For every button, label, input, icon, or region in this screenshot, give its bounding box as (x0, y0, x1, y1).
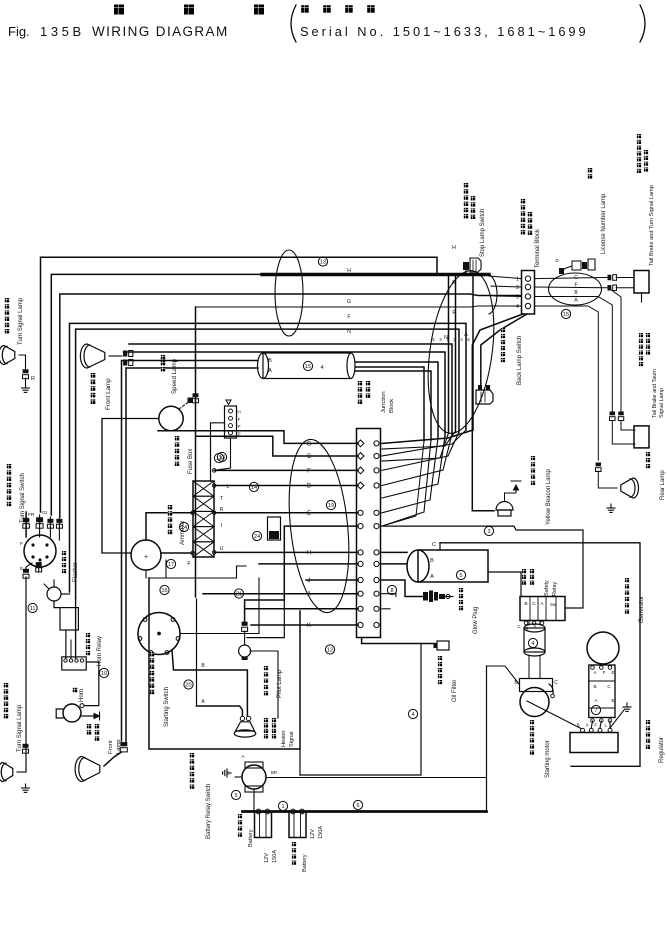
svg-text:Horn: Horn (79, 689, 85, 702)
svg-text:2: 2 (516, 285, 519, 291)
svg-text:Signal: Signal (289, 731, 295, 747)
svg-text:Sw: Sw (550, 602, 557, 607)
svg-text:A: A (268, 368, 272, 374)
svg-text:10: 10 (101, 671, 107, 677)
svg-text:C: C (307, 454, 312, 460)
svg-text:1: 1 (516, 277, 519, 283)
svg-text:150A: 150A (318, 826, 324, 839)
svg-text:N: N (347, 329, 351, 335)
svg-text:H: H (307, 550, 311, 556)
svg-text:15: 15 (563, 312, 569, 318)
svg-text:Front: Front (108, 740, 114, 754)
svg-text:C: C (554, 680, 558, 686)
svg-text:K: K (307, 623, 311, 629)
svg-text:L: L (605, 723, 608, 728)
svg-text:Flasher: Flasher (73, 562, 79, 582)
svg-text:Stop Lamp Switch: Stop Lamp Switch (480, 209, 486, 257)
svg-text:Back Lamp Switch: Back Lamp Switch (517, 336, 523, 385)
svg-text:G: G (452, 280, 456, 286)
svg-text:F: F (594, 723, 597, 728)
svg-text:Rear Lamp: Rear Lamp (660, 470, 666, 500)
svg-text:Front Lamp: Front Lamp (105, 378, 112, 410)
svg-text:8: 8 (390, 588, 393, 594)
svg-text:Gt: Gt (42, 510, 48, 516)
svg-text:G: G (307, 441, 312, 447)
svg-text:5: 5 (459, 573, 462, 579)
svg-text:13: 13 (320, 260, 326, 266)
svg-text:H: H (452, 245, 456, 251)
svg-text:B: B (268, 358, 272, 364)
svg-text:D: D (307, 484, 312, 490)
svg-text:Regulator: Regulator (659, 737, 665, 763)
svg-text:Oil Filter: Oil Filter (452, 680, 458, 702)
svg-text:4: 4 (531, 641, 534, 647)
svg-text:17: 17 (168, 562, 174, 568)
svg-text:C: C (517, 624, 520, 629)
svg-text:150A: 150A (272, 850, 278, 863)
svg-text:24: 24 (254, 534, 260, 540)
svg-text:Relay: Relay (552, 581, 558, 596)
svg-text:Junction: Junction (381, 391, 387, 413)
svg-text:20: 20 (185, 683, 191, 689)
svg-text:7: 7 (594, 708, 597, 714)
svg-text:21: 21 (236, 592, 242, 598)
svg-text:C: C (432, 542, 436, 548)
svg-text:3: 3 (516, 295, 519, 301)
svg-text:4: 4 (516, 304, 519, 310)
svg-text:Tail Brake and Turn Signal Lam: Tail Brake and Turn Signal Lamp (649, 185, 655, 266)
svg-text:6: 6 (356, 803, 359, 809)
svg-text:Turn Signal Switch: Turn Signal Switch (20, 473, 26, 523)
svg-text:I: I (221, 523, 222, 529)
svg-text:12V: 12V (310, 829, 316, 839)
svg-text:E: E (307, 511, 311, 517)
svg-text:Terminal Block: Terminal Block (535, 228, 541, 268)
svg-text:F: F (603, 670, 606, 675)
svg-text:B: B (593, 684, 596, 689)
svg-text:Heater: Heater (281, 730, 287, 747)
svg-text:3: 3 (487, 529, 490, 535)
svg-text:Turn Signal Lamp: Turn Signal Lamp (18, 297, 24, 345)
svg-text:U: U (220, 546, 224, 552)
svg-text:FR: FR (28, 512, 35, 518)
svg-text:Signal Lamp: Signal Lamp (659, 388, 665, 418)
svg-text:5: 5 (234, 793, 237, 799)
svg-text:Block: Block (389, 399, 395, 413)
svg-text:Battery: Battery (302, 854, 308, 872)
svg-text:F: F (20, 541, 23, 547)
svg-text:B: B (430, 558, 434, 564)
svg-text:4: 4 (320, 365, 323, 371)
svg-text:Battery: Battery (248, 829, 254, 847)
svg-text:H: H (237, 410, 240, 415)
svg-text:Tail Brake and Taurn: Tail Brake and Taurn (652, 369, 658, 418)
svg-text:A: A (430, 574, 434, 580)
svg-text:Glow Plug: Glow Plug (473, 607, 479, 634)
svg-text:F: F (238, 417, 241, 422)
svg-text:A: A (307, 592, 311, 598)
svg-text:P: P (237, 424, 240, 429)
svg-text:Fuse Box: Fuse Box (188, 449, 194, 474)
svg-text:E: E (611, 670, 614, 675)
svg-text:12: 12 (327, 648, 333, 654)
svg-text:BR: BR (271, 770, 277, 775)
svg-text:4: 4 (411, 712, 414, 718)
svg-text:Speed Lamp: Speed Lamp (171, 358, 178, 394)
svg-text:License Number Lamp: License Number Lamp (601, 193, 607, 254)
svg-text:B: B (524, 601, 527, 606)
svg-text:F: F (307, 468, 311, 474)
svg-text:H: H (347, 268, 351, 274)
svg-text:WIRING DIAGRAM: WIRING DIAGRAM (92, 24, 229, 39)
svg-text:1 3 5 B: 1 3 5 B (40, 24, 81, 39)
svg-text:16: 16 (161, 588, 167, 594)
svg-text:J: J (308, 578, 311, 584)
svg-text:15: 15 (305, 364, 311, 370)
svg-text:Lamp: Lamp (116, 739, 122, 754)
svg-text:13: 13 (219, 455, 225, 461)
svg-text:F: F (452, 310, 455, 316)
svg-text:Turn Signal Lamp: Turn Signal Lamp (17, 704, 23, 752)
svg-text:E: E (611, 698, 614, 703)
svg-text:R: R (31, 376, 35, 382)
svg-text:Fig.: Fig. (8, 24, 30, 39)
svg-text:E: E (20, 566, 23, 572)
svg-text:G: G (347, 299, 351, 305)
svg-text:19: 19 (328, 503, 334, 509)
svg-text:Safety: Safety (544, 580, 550, 596)
svg-text:Starting motor: Starting motor (545, 740, 551, 778)
svg-text:12V: 12V (264, 853, 270, 863)
svg-text:1: 1 (281, 804, 284, 810)
svg-text:Serial No. 1501~1633, 1681~: Serial No. 1501~1633, 1681~1699 (300, 24, 589, 39)
svg-text:Yellow Beacon Lamp: Yellow Beacon Lamp (546, 469, 552, 525)
svg-text:11: 11 (30, 606, 36, 612)
svg-text:F: F (347, 314, 350, 320)
svg-text:Battery Relay Switch: Battery Relay Switch (206, 784, 212, 839)
svg-text:14: 14 (181, 525, 187, 531)
svg-text:Starting Switch: Starting Switch (164, 687, 170, 727)
svg-text:+: + (144, 554, 148, 561)
